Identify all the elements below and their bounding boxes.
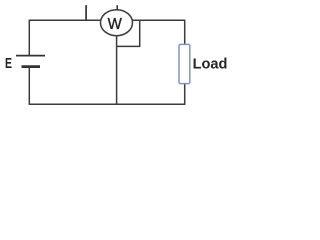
svg-text:E: E [5, 56, 12, 72]
label W inside meter [108, 16, 123, 33]
battery E: long thin positive plate [16, 55, 45, 57]
label E [5, 56, 12, 72]
wire: right vertical, upper segment into load [184, 20, 186, 45]
switch tick on top conductor [85, 5, 87, 20]
label Load [193, 57, 228, 73]
wire: right vertical, lower segment out of load [184, 84, 186, 106]
wire: top conductor from battery branch to load branch [29, 19, 184, 21]
wattmeter W body (ellipse) [101, 10, 133, 36]
battery E: short thick negative plate [22, 65, 41, 68]
terminal tick above wattmeter [116, 5, 118, 10]
wire: left vertical, lower segment from battery [28, 67, 30, 104]
wire: pressure-coil branch, horizontal run then up to top conductor [117, 20, 140, 46]
wire: left vertical, upper segment to battery [28, 20, 30, 55]
wire: middle vertical from wattmeter bottom terminal to bottom conductor [116, 35, 118, 104]
load resistor rectangle [179, 44, 190, 83]
svg-text:W: W [108, 16, 123, 33]
svg-text:Load: Load [193, 57, 228, 73]
wire: bottom conductor [29, 103, 186, 105]
